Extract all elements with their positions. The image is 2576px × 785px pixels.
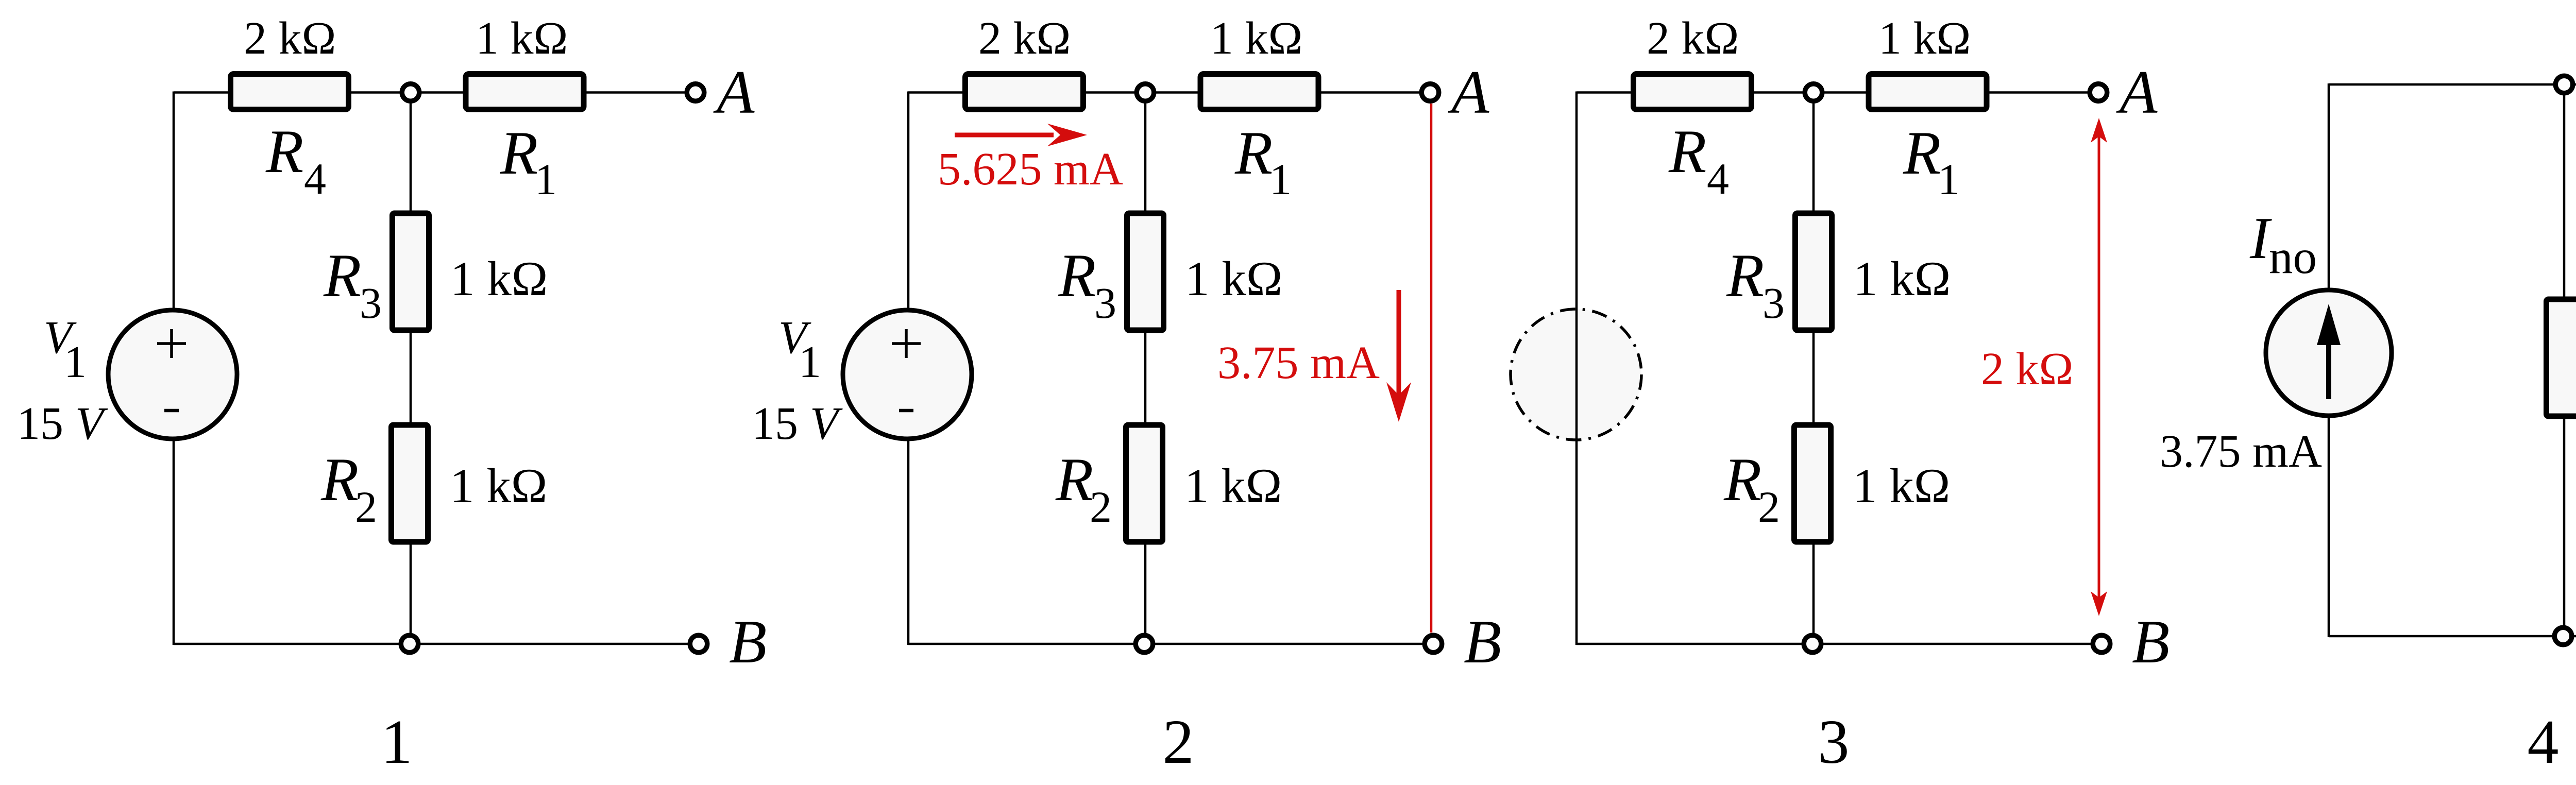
svg-text:A: A — [1448, 58, 1489, 126]
svg-text:2: 2 — [1163, 707, 1194, 777]
svg-text:R: R — [265, 117, 303, 185]
svg-text:2 kΩ: 2 kΩ — [978, 13, 1071, 64]
wire left lower — [907, 403, 910, 645]
svg-text:1: 1 — [381, 707, 413, 777]
svg-text:R: R — [1234, 118, 1273, 187]
svg-text:1: 1 — [1269, 155, 1292, 204]
red wire shorting A to B circuit 2 — [1430, 104, 1433, 633]
label R3 circuit 3 — [1726, 241, 1785, 328]
label V1 circuit 2 — [778, 312, 821, 387]
resistor R4 circuit 1 — [231, 74, 349, 110]
label R1 circuit 3 — [1903, 118, 1960, 204]
svg-text:R: R — [1668, 117, 1706, 185]
svg-text:3: 3 — [1762, 278, 1785, 328]
svg-text:4: 4 — [1707, 154, 1729, 203]
svg-text:3: 3 — [1818, 707, 1850, 777]
svg-text:B: B — [729, 607, 767, 676]
resistor R2 circuit 1 — [392, 425, 428, 542]
node junction top circuit 2 — [1137, 84, 1154, 101]
svg-text:A: A — [713, 58, 755, 126]
current arrow 3.75 mA into short circuit 2 — [1386, 290, 1411, 422]
wire top — [908, 91, 1430, 94]
node junction bottom circuit 4 — [2554, 627, 2572, 645]
terminal A circuit 3 — [2090, 84, 2107, 101]
wire middle — [410, 93, 412, 644]
label V1 circuit 1 — [44, 312, 87, 387]
svg-text:R: R — [1723, 445, 1761, 514]
label R1 circuit 1 — [500, 118, 557, 204]
svg-text:5.625 mA: 5.625 mA — [938, 144, 1123, 195]
svg-text:1: 1 — [64, 337, 87, 387]
wire top circuit 4 — [2329, 83, 2576, 86]
node junction bottom circuit 2 — [1136, 635, 1153, 653]
current arrow 5.625 mA through R4 circuit 2 — [955, 124, 1087, 146]
voltage source V1 circuit 1 — [108, 310, 237, 439]
svg-text:V: V — [75, 398, 108, 449]
svg-text:1 kΩ: 1 kΩ — [476, 13, 568, 64]
wire left lower — [173, 403, 175, 645]
svg-text:R: R — [1903, 118, 1941, 187]
svg-text:1: 1 — [535, 155, 557, 204]
resistor R1 circuit 2 — [1200, 74, 1318, 110]
svg-text:1 kΩ: 1 kΩ — [1210, 13, 1302, 64]
wire middle — [1812, 93, 1815, 644]
resistor R3 circuit 3 — [1795, 213, 1832, 330]
wire bottom — [908, 643, 1433, 645]
node junction top circuit 3 — [1805, 84, 1822, 101]
svg-text:1: 1 — [1938, 155, 1960, 204]
svg-text:1 kΩ: 1 kΩ — [1185, 251, 1282, 306]
svg-text:1 kΩ: 1 kΩ — [1878, 13, 1971, 64]
wire left (short across removed source) — [1575, 92, 1578, 645]
wire left upper — [907, 92, 910, 347]
svg-text:1: 1 — [799, 337, 821, 387]
svg-text:2 kΩ: 2 kΩ — [1981, 344, 2073, 395]
svg-text:2 kΩ: 2 kΩ — [244, 13, 336, 64]
svg-text:R: R — [1058, 241, 1096, 310]
wire bottom — [1577, 643, 2102, 645]
resistor R2 circuit 3 — [1794, 425, 1831, 542]
svg-text:15: 15 — [752, 398, 798, 449]
label R3 circuit 1 — [323, 241, 382, 328]
label Ino circuit 4 — [2249, 206, 2317, 284]
wire top — [174, 91, 696, 94]
wire bottom — [174, 643, 699, 645]
resistor Rno circuit 4 — [2547, 299, 2576, 416]
resistor R4 circuit 3 — [1634, 74, 1752, 110]
svg-text:A: A — [2116, 58, 2158, 126]
svg-text:1 kΩ: 1 kΩ — [1853, 251, 1951, 306]
svg-text:1 kΩ: 1 kΩ — [1184, 458, 1282, 513]
svg-text:3: 3 — [360, 278, 382, 328]
wire bottom circuit 4 — [2329, 635, 2576, 638]
wire left lower circuit 4 — [2328, 402, 2330, 637]
wire top — [1577, 91, 2098, 94]
terminal A circuit 2 — [1421, 84, 1439, 101]
svg-text:4: 4 — [2528, 707, 2559, 777]
equivalent resistance double arrow circuit 3 — [2091, 118, 2107, 616]
label R2 circuit 1 — [320, 445, 377, 532]
svg-text:B: B — [1464, 607, 1501, 676]
svg-text:4: 4 — [304, 154, 326, 203]
label R2 circuit 3 — [1723, 445, 1780, 532]
label R3 circuit 2 — [1058, 241, 1116, 328]
svg-text:2 kΩ: 2 kΩ — [1647, 13, 1739, 64]
resistor R1 circuit 1 — [466, 74, 584, 110]
label R1 circuit 2 — [1234, 118, 1292, 204]
node junction bottom circuit 1 — [401, 635, 418, 653]
svg-text:R: R — [1055, 445, 1093, 514]
resistor R1 circuit 3 — [1869, 74, 1987, 110]
svg-text:R: R — [323, 241, 361, 310]
value 15 V circuit 2 — [752, 398, 843, 449]
current source Ino circuit 4 — [2266, 290, 2392, 416]
resistor R3 circuit 1 — [393, 213, 429, 330]
wire middle — [1144, 93, 1147, 644]
wire middle circuit 4 — [2563, 84, 2566, 636]
svg-text:2: 2 — [355, 482, 377, 532]
node junction bottom circuit 3 — [1804, 635, 1821, 653]
wire left upper circuit 4 — [2328, 83, 2330, 325]
svg-text:1 kΩ: 1 kΩ — [1853, 458, 1950, 513]
label R4 circuit 3 — [1668, 117, 1729, 203]
node junction top circuit 4 — [2555, 76, 2573, 93]
deactivated source (dashed circle) circuit 3 — [1511, 309, 1641, 440]
svg-text:no: no — [2269, 231, 2317, 284]
terminal B circuit 2 — [1425, 635, 1442, 653]
svg-text:R: R — [1726, 241, 1764, 310]
svg-text:3.75 mA: 3.75 mA — [1217, 337, 1380, 388]
svg-text:R: R — [320, 445, 359, 514]
svg-text:15: 15 — [17, 398, 63, 449]
svg-text:R: R — [500, 118, 538, 187]
resistor R3 circuit 2 — [1127, 213, 1164, 330]
resistor R2 circuit 2 — [1126, 425, 1163, 542]
voltage source V1 circuit 2 — [843, 310, 972, 439]
svg-text:1 kΩ: 1 kΩ — [450, 251, 548, 306]
terminal A circuit 1 — [687, 84, 704, 101]
svg-text:3: 3 — [1094, 278, 1116, 328]
svg-text:B: B — [2132, 607, 2170, 676]
label R4 circuit 1 — [265, 117, 326, 203]
svg-text:V: V — [810, 398, 843, 449]
terminal B circuit 1 — [690, 635, 707, 653]
svg-text:2: 2 — [1090, 482, 1112, 532]
terminal B circuit 3 — [2093, 635, 2110, 653]
label R2 circuit 2 — [1055, 445, 1112, 532]
value 15 V circuit 1 — [17, 398, 108, 449]
resistor R4 circuit 2 — [965, 74, 1083, 110]
wire left upper — [173, 92, 175, 347]
svg-text:3.75 mA: 3.75 mA — [2160, 426, 2322, 477]
svg-text:1 kΩ: 1 kΩ — [450, 458, 547, 513]
svg-text:2: 2 — [1758, 482, 1780, 532]
node junction top circuit 1 — [402, 84, 419, 101]
